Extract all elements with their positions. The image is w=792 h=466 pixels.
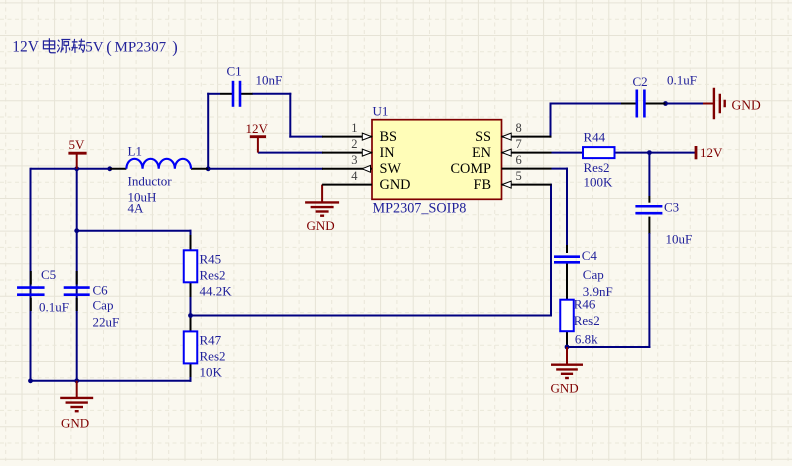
svg-text:U1: U1 <box>373 103 389 118</box>
wire C3 vertical upper <box>648 153 650 196</box>
label C4 Cap <box>583 267 604 282</box>
svg-text:GND: GND <box>307 218 335 233</box>
label R47 10K <box>200 364 223 379</box>
label C6 value 22uF <box>93 314 120 329</box>
wire divider column lower <box>190 364 192 382</box>
svg-text:C4: C4 <box>582 248 598 263</box>
power port 12V right <box>696 145 723 160</box>
pin name FB <box>474 177 492 193</box>
pin 6 COMP <box>502 153 552 169</box>
label C6 Cap <box>93 297 114 312</box>
wire divider column mid <box>190 283 192 332</box>
label C3 <box>664 199 679 214</box>
pin 2 IN <box>322 137 372 156</box>
label U1 <box>373 103 389 118</box>
junction rail/5V/C6 <box>74 166 79 171</box>
wire C1 top right <box>252 93 291 95</box>
svg-text:8: 8 <box>516 121 522 135</box>
junction R46/C3/GND <box>565 345 570 350</box>
svg-text:12V: 12V <box>12 38 39 55</box>
pin 7 EN <box>502 137 552 156</box>
svg-text:Res2: Res2 <box>200 267 226 282</box>
svg-text:10uF: 10uF <box>666 231 693 246</box>
wire FB long horizontal <box>191 315 553 317</box>
label R47 Res2 <box>200 348 226 363</box>
svg-text:GND: GND <box>732 98 761 113</box>
resistor R47 <box>184 331 198 363</box>
wire left vertical <box>30 168 32 382</box>
svg-text:4A: 4A <box>128 200 145 215</box>
svg-text:R45: R45 <box>200 251 222 266</box>
wire C1 right vertical <box>289 93 291 138</box>
wire C3 junction horizontal <box>566 346 650 348</box>
svg-text:): ) <box>172 37 178 56</box>
label C2 value 0.1uF <box>667 72 697 87</box>
svg-text:22uF: 22uF <box>93 314 120 329</box>
svg-text:3: 3 <box>351 153 357 167</box>
label C5 <box>41 267 56 282</box>
junction inductor left pin <box>107 166 112 171</box>
label R44 Res2 <box>584 160 610 175</box>
svg-text:IN: IN <box>380 145 395 161</box>
svg-text:R46: R46 <box>574 296 596 311</box>
power port 5V <box>68 137 86 169</box>
svg-text:Cap: Cap <box>583 267 604 282</box>
label C4 <box>582 248 598 263</box>
svg-text:BS: BS <box>380 129 398 145</box>
wire R44 to 12V <box>615 152 696 154</box>
wire C2 row <box>550 103 622 105</box>
power ground GND top right <box>703 88 761 120</box>
wire 5V rail left segment <box>31 168 112 170</box>
label C6 <box>93 282 109 297</box>
power ground GND under pin4 <box>305 185 339 233</box>
svg-text:FB: FB <box>474 177 492 193</box>
inductor L1 <box>110 159 208 169</box>
label 10nF <box>256 72 283 87</box>
wire divider column upper <box>190 230 192 251</box>
pin 1 BS <box>322 121 372 140</box>
capacitor C6 <box>64 271 90 311</box>
label C4 value 3.9nF <box>583 284 613 299</box>
svg-text:SS: SS <box>475 129 491 145</box>
svg-text:44.2K: 44.2K <box>200 283 233 298</box>
wire COMP/C4 vertical <box>566 168 568 245</box>
svg-text:10K: 10K <box>200 364 223 379</box>
resistor R45 <box>184 250 198 282</box>
svg-text:R47: R47 <box>200 332 222 347</box>
label R45 Res2 <box>200 267 226 282</box>
svg-text:6: 6 <box>516 153 522 167</box>
label 10uH <box>128 189 157 204</box>
svg-text:7: 7 <box>516 137 522 151</box>
pin 8 SS <box>502 121 552 140</box>
wire SW rail right <box>207 168 323 170</box>
pin name COMP <box>450 161 491 177</box>
pin name SS <box>475 129 491 145</box>
wire C2 right to GND <box>666 103 704 105</box>
resistor R44 <box>583 147 615 158</box>
pin 3 SW <box>322 153 372 172</box>
svg-text:6.8k: 6.8k <box>575 332 598 347</box>
svg-text:C2: C2 <box>633 74 648 89</box>
svg-text:GND: GND <box>61 415 89 430</box>
wire C6 column <box>76 169 78 381</box>
label MP2307_SOIP8 <box>373 201 467 217</box>
junction C2 right pin <box>663 101 668 106</box>
label L1 <box>128 143 142 158</box>
svg-text:12V: 12V <box>700 145 723 160</box>
label R45 44.2K <box>200 283 233 298</box>
label C3 value 10uF <box>666 231 693 246</box>
wire C1 top left <box>207 93 220 95</box>
pin 5 FB <box>502 169 552 188</box>
svg-text:MP2307_SOIP8: MP2307_SOIP8 <box>373 201 467 217</box>
wire C3 pin bottom <box>648 217 650 234</box>
svg-text:5V: 5V <box>69 137 86 152</box>
svg-text:100K: 100K <box>584 174 614 189</box>
junction bottom C6/GND <box>74 378 79 383</box>
svg-text:2: 2 <box>351 137 357 151</box>
svg-text:Res2: Res2 <box>584 160 610 175</box>
svg-text:C5: C5 <box>41 267 56 282</box>
wire C3 vertical lower <box>648 233 650 348</box>
junction inductor right pin / C1 <box>206 166 211 171</box>
wire C3 pin top <box>648 196 650 203</box>
label R46 Res2 <box>574 313 600 328</box>
wire C4 to R46 <box>566 263 568 300</box>
label R44 <box>584 129 606 144</box>
capacitor C2 <box>621 90 666 118</box>
svg-text:C1: C1 <box>227 63 242 78</box>
pin name SW <box>380 161 402 177</box>
svg-text:MP2307: MP2307 <box>115 39 167 55</box>
svg-text:(: ( <box>106 37 112 56</box>
svg-text:Res2: Res2 <box>574 313 600 328</box>
wire divider feed horizontal <box>77 230 192 232</box>
svg-text:R44: R44 <box>584 129 606 144</box>
svg-text:EN: EN <box>472 145 491 161</box>
pin 4 GND <box>322 169 372 185</box>
wire FB vertical <box>550 184 552 317</box>
svg-text:12V: 12V <box>246 121 269 136</box>
wire COMP horizontal <box>552 168 569 170</box>
wire R46 to junction <box>566 332 568 349</box>
power ground GND bottom middle <box>551 347 583 396</box>
svg-text:0.1uF: 0.1uF <box>39 299 69 314</box>
svg-text:5: 5 <box>516 169 522 183</box>
svg-text:L1: L1 <box>128 143 142 158</box>
junction C6/divider feed <box>74 228 79 233</box>
svg-text:10nF: 10nF <box>256 72 283 87</box>
label R46 <box>574 296 596 311</box>
label C1 <box>227 63 242 78</box>
junction bottom left corner <box>28 378 33 383</box>
capacitor C3 <box>635 206 662 213</box>
svg-text:COMP: COMP <box>450 161 491 177</box>
wire BS horizontal <box>289 136 323 138</box>
resistor R46 <box>560 300 574 332</box>
svg-text:1: 1 <box>351 121 357 135</box>
pin name BS <box>380 129 398 145</box>
capacitor C4 <box>554 245 580 262</box>
title text 12V to 5V (MP2307) <box>12 37 178 56</box>
svg-text:GND: GND <box>551 381 579 396</box>
wire bottom <box>30 380 192 382</box>
wire C1 left vertical <box>207 93 209 169</box>
power port 12V left <box>246 121 269 153</box>
label 4A <box>128 200 145 215</box>
junction R44/12V/C3 <box>647 150 652 155</box>
svg-text:Cap: Cap <box>93 297 114 312</box>
pin name EN <box>472 145 491 161</box>
label Inductor <box>128 173 173 188</box>
capacitor C1 <box>220 81 253 107</box>
label R46 6.8k <box>575 332 598 347</box>
label R45 <box>200 251 222 266</box>
pin name GND <box>380 177 411 193</box>
svg-text:Inductor: Inductor <box>128 173 173 188</box>
junction divider mid <box>188 313 193 318</box>
label C2 <box>633 74 648 89</box>
svg-text:Res2: Res2 <box>200 348 226 363</box>
power ground GND bottom left <box>60 381 93 431</box>
svg-text:0.1uF: 0.1uF <box>667 72 697 87</box>
wire EN to R44 <box>552 152 584 154</box>
op-amp U1 body <box>372 120 502 200</box>
pin name IN <box>380 145 395 161</box>
svg-text:GND: GND <box>380 177 411 193</box>
label C5 value 0.1uF <box>39 299 69 314</box>
svg-text:5V: 5V <box>85 39 104 55</box>
svg-text:C6: C6 <box>93 282 109 297</box>
svg-text:4: 4 <box>351 169 358 183</box>
label R47 <box>200 332 222 347</box>
label R44 100K <box>584 174 614 189</box>
svg-text:C3: C3 <box>664 199 679 214</box>
svg-text:SW: SW <box>380 161 402 177</box>
wire SS vertical <box>550 103 552 138</box>
capacitor C5 <box>17 271 45 311</box>
wire IN horizontal <box>258 152 323 154</box>
